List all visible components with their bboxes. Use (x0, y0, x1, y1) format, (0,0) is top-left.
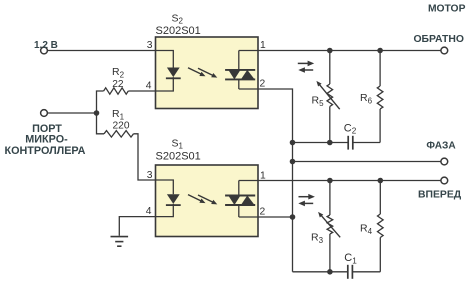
svg-text:2: 2 (260, 207, 266, 218)
svg-text:3: 3 (147, 170, 153, 181)
resistor R4 (379, 181, 381, 215)
capacitor C1 (347, 265, 349, 279)
S1 internal LED wire (156, 180, 174, 194)
node R6 top (377, 48, 383, 54)
svg-text:1: 1 (260, 170, 266, 181)
varistor R3 (329, 181, 331, 216)
node R3 bottom (327, 269, 333, 275)
ground symbol (111, 236, 129, 238)
node R5 bottom (327, 140, 333, 146)
svg-text:4: 4 (146, 206, 152, 217)
S1 LED triangle (167, 194, 180, 204)
node R3 top (327, 178, 333, 184)
svg-text:R5: R5 (312, 95, 325, 108)
svg-text:R1: R1 (112, 108, 125, 121)
svg-text:22: 22 (112, 79, 124, 90)
wire S2 pin1 to OBRATNO terminal (239, 50, 441, 52)
node R4 top (378, 178, 384, 184)
terminal PORT (41, 110, 48, 117)
terminal FAZA (441, 158, 448, 165)
svg-text:КОНТРОЛЛЕРА: КОНТРОЛЛЕРА (5, 145, 86, 157)
resistor R1 (97, 113, 105, 134)
wire 1.2V supply to pin 3 of S2 (47, 50, 155, 52)
svg-text:R6: R6 (360, 92, 373, 105)
svg-text:МОТОР: МОТОР (428, 4, 466, 15)
S1 light arrows (188, 195, 203, 202)
svg-text:1.2 В: 1.2 В (34, 40, 58, 51)
svg-text:4: 4 (146, 81, 152, 92)
current direction arrows near S1 output (299, 196, 309, 198)
varistor R5 (329, 51, 331, 85)
S2 internal LED wire (156, 51, 174, 68)
resistor R2 (97, 91, 104, 113)
wire S2 pin2 down the bus (239, 89, 293, 272)
S2 LED triangle (167, 68, 180, 78)
svg-text:ВПЕРЕД: ВПЕРЕД (418, 189, 462, 200)
wire C2 rail (293, 142, 349, 144)
svg-text:S202S01: S202S01 (156, 25, 201, 37)
ground wire from pin 4 of S1 (119, 217, 155, 236)
capacitor C2 (347, 136, 349, 150)
optocoupler S2 S202S01 body (156, 37, 259, 109)
node bus x C2 rail (290, 140, 296, 146)
current direction arrows near S2 output (298, 62, 308, 64)
wire FAZA (293, 161, 442, 163)
node junction port splits to R2 R1 (94, 110, 100, 116)
svg-text:1: 1 (260, 40, 266, 51)
optocoupler S1 S202S01 body (156, 165, 259, 237)
svg-text:3: 3 (147, 40, 153, 51)
S2 light arrows (188, 68, 203, 75)
node bus x FAZA (290, 159, 296, 165)
wire microcontroller port to junction (47, 112, 96, 114)
S2 phototriac (238, 51, 240, 70)
svg-text:R3: R3 (311, 232, 324, 245)
wire S1 pin1 to VPERED terminal (239, 180, 441, 182)
resistor R6 (379, 51, 381, 87)
svg-text:R4: R4 (360, 223, 373, 236)
svg-text:ОБРАТНО: ОБРАТНО (413, 34, 464, 45)
S1 LED cathode bar (166, 204, 181, 206)
wire S1 pin2 to bus (239, 216, 293, 218)
svg-text:C1: C1 (344, 252, 357, 265)
svg-text:R2: R2 (112, 66, 125, 79)
terminal VPERED (441, 177, 448, 184)
svg-text:S1: S1 (172, 137, 184, 150)
terminal OBRATNO (441, 47, 448, 54)
S2 LED cathode bar (166, 77, 181, 79)
svg-text:ФАЗА: ФАЗА (426, 141, 456, 152)
wire bottom rail (293, 271, 348, 273)
node R5 top (327, 48, 333, 54)
node bus x S1 pin2 (290, 214, 296, 220)
svg-text:220: 220 (113, 120, 130, 131)
svg-text:2: 2 (260, 79, 266, 90)
svg-text:C2: C2 (344, 122, 357, 135)
svg-text:S202S01: S202S01 (156, 151, 201, 163)
terminal 1.2 V (41, 47, 48, 54)
svg-text:МИКРО-: МИКРО- (25, 134, 68, 146)
S1 phototriac (238, 181, 240, 196)
svg-text:S2: S2 (172, 12, 184, 25)
